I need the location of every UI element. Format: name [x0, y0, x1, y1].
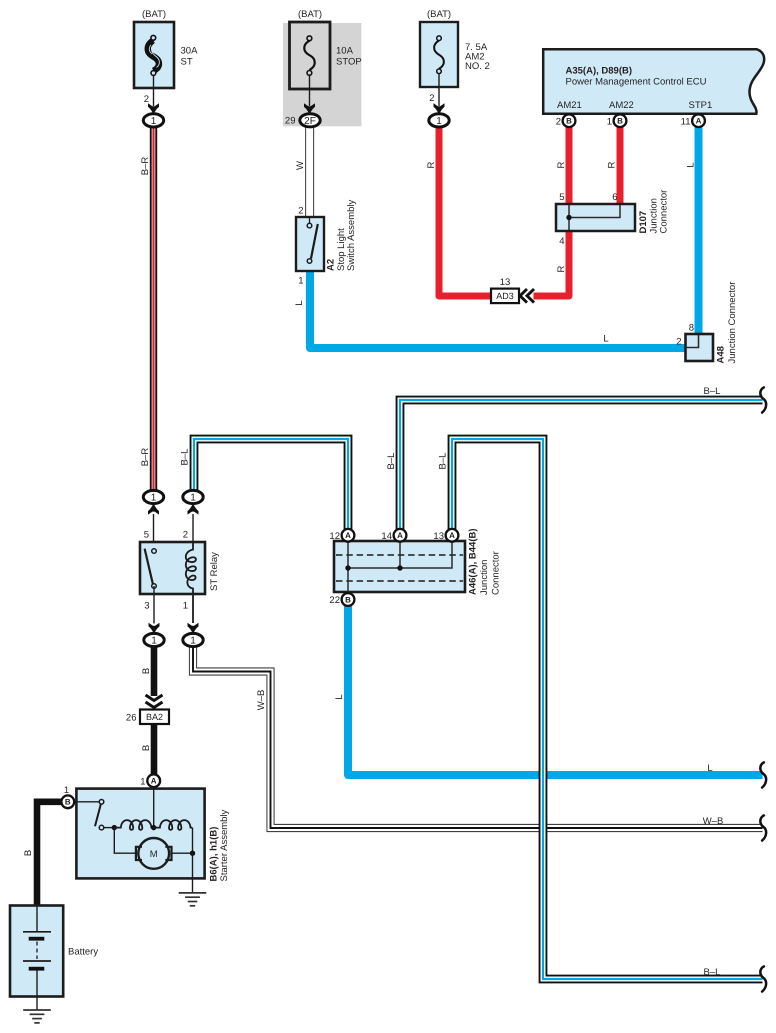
battery ground stem: [36, 997, 38, 1010]
svg-text:5: 5: [144, 530, 149, 541]
svg-text:A: A: [696, 117, 702, 126]
svg-text:Power Management Control ECU: Power Management Control ECU: [566, 77, 707, 88]
starter internal wire from pin A down: [153, 787, 155, 827]
fuse 30A ST box: [134, 22, 174, 88]
break symbol W-B: [760, 815, 766, 840]
starter pin circle 1(A): [147, 774, 160, 787]
double chevron break above BA2: [146, 695, 163, 708]
wire R (ECU AM22 to D107 pin 6): [617, 127, 624, 206]
svg-text:Switch Assembly: Switch Assembly: [346, 199, 357, 271]
svg-text:1: 1: [190, 636, 196, 647]
svg-text:R: R: [607, 161, 618, 168]
ECU A35(A) D89(B) box with torn right edge: [543, 49, 764, 114]
svg-text:1: 1: [140, 776, 145, 787]
battery internals: [23, 906, 51, 996]
A46 pin circle 22(B): [342, 593, 355, 606]
svg-text:L: L: [603, 334, 608, 345]
wire R (7.5A AM2 fuse down to AD3): [439, 127, 492, 297]
svg-text:A: A: [397, 531, 403, 540]
A46 pin circle 14(A): [394, 529, 407, 542]
svg-text:Connector: Connector: [659, 190, 670, 234]
svg-text:R: R: [556, 265, 567, 272]
svg-text:AM21: AM21: [557, 100, 582, 111]
junction connector A48 box: [686, 334, 714, 361]
connector oval 1 (below relay pin 1): [183, 633, 203, 646]
svg-text:Junction Connector: Junction Connector: [727, 282, 738, 364]
svg-text:A2: A2: [326, 259, 337, 271]
svg-text:B–L: B–L: [704, 386, 721, 397]
wire W-B (ST relay pin 1 down, right to break): [193, 646, 763, 828]
wire stub fuse 7.5A to connector: [438, 74, 440, 106]
starter motor M: [136, 838, 172, 869]
arrow into connector 1 (below 7.5A fuse): [434, 103, 445, 114]
ST relay switch contact and blade: [145, 549, 157, 589]
svg-text:1: 1: [183, 601, 188, 612]
svg-text:1: 1: [64, 785, 69, 796]
svg-text:22: 22: [329, 595, 340, 606]
svg-text:Battery: Battery: [68, 947, 98, 958]
svg-text:B–R: B–R: [140, 448, 151, 467]
svg-text:29: 29: [285, 116, 296, 127]
D107 internal junction dot: [566, 215, 571, 220]
svg-text:1: 1: [151, 493, 157, 504]
svg-text:B: B: [65, 798, 71, 807]
svg-text:ST: ST: [181, 57, 193, 68]
ECU pin circle AM21 2(B): [563, 114, 576, 127]
connector BA2 box: [140, 710, 169, 725]
arrow down into oval (relay pin 1): [188, 623, 199, 634]
AD3 double chevron: [520, 289, 534, 303]
svg-text:L: L: [686, 162, 697, 167]
svg-text:B–L: B–L: [438, 453, 449, 470]
svg-text:5: 5: [559, 192, 564, 203]
svg-text:W–B: W–B: [703, 816, 724, 827]
svg-text:2F: 2F: [304, 116, 316, 127]
connector oval 1 (below 7.5A fuse): [429, 114, 449, 127]
ECU pin circle STP1 11(A): [692, 114, 705, 127]
svg-text:STOP: STOP: [336, 57, 362, 68]
wire L (ECU STP1 to A48 pin 8): [695, 127, 703, 336]
starter pin circle 1(B): [61, 795, 74, 808]
break symbol L: [760, 762, 766, 787]
fuse 10A STOP symbol: [304, 36, 315, 75]
starter junction dot (switch to coil): [112, 825, 117, 830]
svg-text:2: 2: [183, 530, 188, 541]
stop light switch A2 box: [296, 217, 324, 271]
wire B-L (A46 pin 13 up, right, down the page and right to break): [452, 439, 763, 979]
A2 switch contacts and blade: [307, 217, 318, 263]
starter solenoid coil 1: [114, 820, 153, 830]
svg-text:1: 1: [436, 116, 442, 127]
arrow up into oval (relay pin 5): [148, 503, 159, 514]
wire B (starter pin B to battery): [37, 802, 62, 906]
battery ground symbol: [23, 1010, 51, 1023]
svg-text:B–L: B–L: [386, 453, 397, 470]
A46 pin circle 13(A): [446, 529, 459, 542]
svg-text:11: 11: [681, 116, 691, 127]
svg-text:A: A: [449, 531, 455, 540]
svg-text:Starter Assembly: Starter Assembly: [219, 809, 230, 881]
starter ground symbol: [179, 893, 207, 906]
starter junction dot (right): [190, 851, 195, 856]
fuse 30A ST fusible-link symbol: [148, 35, 160, 75]
svg-text:1: 1: [151, 116, 157, 127]
connector AD3 box: [491, 289, 519, 304]
svg-text:B6(A), h1(B): B6(A), h1(B): [209, 827, 220, 882]
wire B-L (ST relay pin 2 up and over to A46 pin 12): [194, 439, 348, 529]
wire B (ST relay pin 3 to BA2): [151, 646, 158, 696]
svg-text:ST Relay: ST Relay: [209, 552, 220, 591]
svg-text:Junction: Junction: [479, 560, 490, 595]
svg-text:30A: 30A: [181, 46, 199, 57]
svg-text:B: B: [23, 850, 34, 856]
svg-text:AD3: AD3: [496, 291, 514, 301]
junction connector D107 box: [556, 204, 635, 231]
svg-text:L: L: [294, 300, 305, 305]
ECU pin circle AM22 1(B): [614, 114, 627, 127]
svg-text:A35(A), D89(B): A35(A), D89(B): [566, 66, 633, 77]
svg-text:6: 6: [612, 192, 617, 203]
svg-text:R: R: [426, 161, 437, 168]
svg-text:Connector: Connector: [491, 551, 502, 595]
wire stub relay pin 3 down: [153, 586, 155, 624]
gray highlight panel behind 10A STOP fuse: [283, 23, 361, 126]
svg-text:10A: 10A: [336, 46, 354, 57]
svg-text:3: 3: [144, 601, 149, 612]
svg-text:A: A: [151, 777, 157, 786]
ST relay box: [140, 542, 205, 594]
svg-text:2: 2: [676, 337, 681, 348]
svg-text:1: 1: [190, 493, 196, 504]
wire stub fuse 30A to connector: [153, 75, 155, 106]
svg-text:2: 2: [429, 93, 434, 104]
arrow down into oval (relay pin 3): [149, 623, 160, 634]
break symbol top B-L: [760, 387, 766, 412]
connector oval 1 (below 30A fuse): [143, 114, 163, 127]
A46 pin circle 12(A): [342, 529, 355, 542]
svg-text:14: 14: [381, 531, 392, 542]
svg-text:L: L: [707, 763, 712, 774]
svg-text:1: 1: [151, 636, 157, 647]
svg-text:M: M: [150, 849, 158, 860]
wire stub oval to relay pin 5: [153, 514, 155, 551]
arrow into connector 1 (below 30A fuse): [148, 103, 159, 114]
starter assembly B6(A) h1(B) box: [76, 789, 204, 879]
svg-text:D107: D107: [638, 211, 649, 234]
svg-text:AM22: AM22: [609, 100, 634, 111]
svg-text:(BAT): (BAT): [427, 9, 451, 20]
break symbol bottom B-L: [760, 966, 766, 991]
connector oval 1 (above relay pin 2): [183, 490, 203, 503]
svg-text:2: 2: [144, 94, 149, 105]
svg-text:B–L: B–L: [704, 967, 721, 978]
wire L (A46 pin 22 down and right to break): [348, 606, 763, 776]
svg-text:2: 2: [556, 116, 561, 127]
arrow up into oval (relay pin 2): [188, 503, 199, 514]
svg-text:B–R: B–R: [140, 157, 151, 176]
wire B-R (30A ST fuse to ST relay pin 5, net B-R): [150, 127, 157, 492]
junction connector A46(A) B44(B) box: [334, 541, 465, 592]
wire R (AD3 to D107 pin 4): [534, 231, 570, 296]
svg-text:1: 1: [298, 276, 303, 287]
svg-text:4: 4: [559, 236, 564, 247]
svg-text:L: L: [334, 694, 345, 699]
A48 internal busbar: [686, 335, 699, 348]
connector oval 1 (below relay pin 3): [144, 633, 164, 646]
svg-text:26: 26: [126, 713, 137, 724]
svg-text:13: 13: [500, 277, 511, 288]
A46 junction dot pin 14 bus: [397, 565, 402, 570]
arrow into connector 2F: [304, 103, 315, 114]
svg-text:B–L: B–L: [180, 449, 191, 466]
svg-text:W–B: W–B: [256, 690, 267, 711]
A46 junction dot pin 12 bus: [345, 565, 350, 570]
battery box: [10, 906, 63, 997]
svg-text:(BAT): (BAT): [298, 9, 322, 20]
svg-text:A48: A48: [716, 346, 727, 363]
wire W (2F connector to stop light switch pin 2): [306, 127, 314, 218]
svg-text:W: W: [295, 161, 306, 170]
svg-text:B: B: [141, 668, 152, 674]
svg-text:B: B: [141, 745, 152, 751]
svg-text:13: 13: [433, 531, 444, 542]
svg-text:B: B: [617, 117, 623, 126]
svg-text:12: 12: [329, 531, 340, 542]
svg-text:B: B: [345, 595, 351, 604]
starter wiring left side: [114, 828, 136, 854]
wire B-L (A46 pin 14 up and right to page break): [400, 400, 763, 529]
connector oval 1 (above relay pin 5): [143, 490, 163, 503]
A46 internal busbar: [348, 542, 452, 594]
wire stub oval to relay pin 2: [192, 514, 194, 552]
wire L (stop light switch pin 1 to A48 pin 2): [310, 262, 686, 348]
svg-text:A46(A), B44(B): A46(A), B44(B): [468, 528, 479, 595]
starter wiring right side: [171, 828, 193, 854]
svg-text:STP1: STP1: [689, 100, 713, 111]
svg-text:2: 2: [298, 206, 303, 217]
svg-text:A: A: [345, 531, 351, 540]
wire stub fuse 10A to connector 2F: [309, 75, 311, 106]
D107 internal busbar: [569, 205, 620, 230]
starter ground stem: [192, 853, 194, 892]
svg-text:(BAT): (BAT): [142, 9, 166, 20]
svg-text:B: B: [566, 117, 572, 126]
fuse 10A STOP box: [290, 22, 331, 89]
connector oval 2F: [300, 114, 320, 127]
svg-text:1: 1: [607, 116, 612, 127]
svg-text:8: 8: [689, 323, 694, 334]
svg-text:BA2: BA2: [146, 712, 163, 722]
starter junction dot (coil midpoint): [151, 825, 156, 830]
svg-text:NO. 2: NO. 2: [465, 61, 490, 72]
starter switch: [74, 800, 114, 830]
fuse 7.5A AM2 box: [420, 22, 458, 87]
ST relay coil: [186, 542, 196, 623]
wire R (ECU AM21 to D107 pin 5): [566, 127, 573, 206]
A46 dashed partition lines: [336, 555, 463, 581]
svg-text:R: R: [556, 161, 567, 168]
starter solenoid coil 2: [154, 820, 193, 830]
fuse 7.5A AM2 symbol: [434, 36, 444, 74]
wire B (BA2 to starter pin 1A): [151, 724, 158, 775]
